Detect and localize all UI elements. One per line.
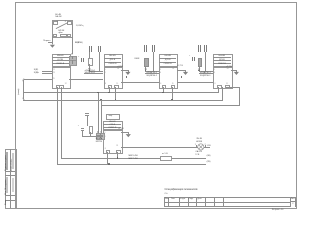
IC DD2 body [104,66,124,89]
wire DD4 pin a to bus B1 [217,87,220,93]
IC DD1 header text 2 [52,59,69,61]
junction bus B2 tap [100,99,102,101]
IC DD1 pin number 21 [53,69,55,71]
wire perekl arrow [48,41,53,44]
diode VD1 arrowhead [198,69,200,71]
label above DD5 text [108,115,112,117]
junction bus B1 tap [97,92,99,94]
lamp pin label 2 [205,144,206,146]
left stamp cell smudge 4 [12,178,14,192]
IC DD5 pin number 13 [116,145,118,147]
label ZhDA [34,72,39,74]
IC DD5 connector labels line1 [96,138,102,140]
label above DD5 box [106,114,120,121]
label ground DD5 [118,128,124,130]
drawing frame border [15,2,297,209]
label 1.8 MHz [76,25,84,27]
wire DD4 pin b right [226,86,240,89]
ground DD3 lead [184,70,187,72]
wire DD1 pin b down [60,87,63,159]
wire lower L1 [61,157,207,160]
junction DD3 b B2 [171,99,173,101]
label 3 25V [76,42,83,44]
wire DD1 pin a down [56,87,59,165]
junction dot group3 [198,70,199,71]
IC DD4 header row line 3 [213,62,231,65]
label lamp top line2 [196,141,202,143]
left stamp strip column divider [9,149,12,208]
IC DD3 pin number 6 [160,72,161,74]
wire DD5 pin a down to L2 [106,152,109,164]
label ZhD1 [34,69,38,71]
label KT315 line2 [85,72,96,74]
lamp pin label 1 [195,144,196,146]
left stamp strip outer [5,149,17,210]
wire into DD5 left [82,135,103,138]
capacitor C5a vertical bar b [154,45,155,51]
bus bottom curl [23,98,25,100]
resistor R3 filled [198,58,203,67]
IC DD1 header text 1 [52,55,69,57]
title block header text data [197,198,201,200]
IC DD5 pin number 8 [105,148,106,150]
switch SA1 second row pin left [53,34,58,38]
capacitor C4 plate bottom [85,114,89,117]
switch SA1 second row label line2 [58,32,62,34]
IC DD1 pin number 23 [53,72,55,74]
resistor R2 filled [144,58,149,67]
wire DD5 to lamp [121,146,197,149]
title block header text podp [189,198,194,200]
IC DD3 body [159,66,179,89]
left stamp strip row line 2 [5,174,15,177]
IC DD1 header row line 3 [52,62,69,65]
title block table top line [164,196,296,199]
IC DD1 connector block upper [69,56,77,61]
capacitor C7 vertical bar a [204,45,205,51]
title block table mid line [164,201,290,204]
title block list label [291,198,295,200]
label perekl [43,40,50,42]
capacitor C5a vertical bar a [152,45,153,51]
wire group2 to DD3 pin 5 [145,70,158,73]
title block list number [292,203,293,205]
diode VD2 arrowhead group2 [145,69,147,71]
junction DD5 b L1 [117,157,119,159]
left stamp rotated text cell 2 [5,179,7,195]
bus wire B2 [23,99,222,102]
IC DD4 header row line 1 [213,56,231,59]
junction dot group1 [89,70,90,71]
left stamp strip row line 3 [5,194,15,197]
title block divider 7 [222,197,225,207]
label KT315 DD4 line2 [200,75,211,77]
ground symbol DD2 [125,72,130,75]
capacitor C3 vertical bar a [98,46,99,52]
capacitor C5 plate bottom [81,129,85,132]
IC DD2 header text 2 [104,59,122,61]
arrowhead into DD5 connector b [100,131,102,133]
junction dot on L2 [108,163,110,165]
capacitor C7 vertical bar b [206,45,207,51]
capacitor C1 plate left [80,58,83,61]
capacitor C2 vertical bar b [91,46,92,52]
IC DD1 connector block lower [69,60,77,65]
IC DD1 pin number 12 [65,83,67,85]
capacitor C3 vertical bar b [100,46,101,52]
IC DD5 header text 3 [103,127,121,129]
IC DD3 header text 1 [159,55,177,57]
wire DD5 to ground [121,131,128,134]
IC DD1 body [52,66,71,89]
IC DD3 pin number 5 [160,69,161,71]
ground symbol DD5 [126,134,131,137]
IC DD2 header row line 2 [104,61,122,64]
capacitor C6 vertical bar b [200,45,201,51]
wire bus B1 to DD5 connector [97,92,100,132]
wire group1 to DD2 pin 6 [84,72,103,75]
wire DD5 pin b down to L1 [116,152,119,158]
label above group 1 [75,42,79,44]
title block divider 6 [213,197,216,207]
switch SA1 second row pin right [67,34,72,38]
left stamp rotated text cell 3 [5,199,7,205]
label KT315 DD3 line2 [146,75,157,77]
IC DD2 header box [104,54,124,67]
IC DD5 header text 2 [103,124,121,126]
resistor R1 lead top [88,52,91,57]
wire DD4 loop down [238,87,241,106]
left stamp rotated text cell 1 [5,155,7,171]
IC DD5 header text 1 [103,121,121,123]
capacitor C5 plus [78,125,79,127]
resistor R2 lead bottom [144,66,147,71]
IC DD4 header row line 2 [213,59,231,62]
resistor R1 lead bottom [88,64,91,71]
title block divider 5 [204,197,207,207]
resistor R1 [88,58,93,67]
bus wire B3 [101,104,240,107]
wire DD4 pin a to bus B2 vertical [221,87,224,100]
resistor R3 lead bottom [198,66,201,71]
title block divider 1 [167,197,170,207]
bus top curl [23,79,24,81]
resistor RL on L1 [160,156,172,161]
label lamp top line1 [196,138,202,140]
wire lower L2 [57,163,206,166]
switch SA1 second row label line1 [58,30,64,32]
label lamp bottom line1 [195,151,201,153]
ground symbol under switch [50,44,55,48]
IC DD1 connector block lower divider [71,60,74,63]
IC DD2 pin number 5 [105,69,106,71]
label MVU line1 [129,155,138,157]
switch unit SA1 outline [52,20,73,37]
title block divider 2 [178,197,181,207]
IC DD5 header row line 1 [103,123,121,126]
IC DD5 bottom pin a [106,150,111,154]
IC DD5 header box [103,121,123,132]
arrowhead into DD5 connector a [97,131,99,133]
wire C5a down to pin wire [152,52,155,71]
IC DD1 header box [52,54,71,68]
resistor RL label [162,153,168,155]
IC DD2 bottom pin a [108,85,113,89]
junction DD2 b B2 [115,99,117,101]
title caption line 2 [165,193,168,195]
wire DD3 pin a to bus B1 [162,87,165,93]
bus vertical line [22,80,25,99]
wire group1 to DD2 pin 5 [89,70,103,73]
ground symbol DD3 [183,72,188,75]
lamp HL1 circle [198,144,204,150]
label lamp right [207,145,211,147]
switch unit SA1 label line2 [55,16,61,18]
switch SA1 pin 4 [67,21,72,25]
ground symbol DD4 [234,72,239,75]
wire group2 to DD3 pin 6 [145,72,158,75]
wire switch left lead down [51,36,54,44]
title block header text izm [165,198,169,200]
label lamp bottom line2 [195,154,199,156]
IC DD4 header text 3 [213,63,231,65]
capacitor C4 vertical bar a [144,45,145,51]
IC DD5 header row line 2 [103,126,121,129]
wire bus B2 to DD5 connector [100,100,103,133]
capacitor C5 lead bottom [81,130,84,136]
IC DD3 pin number 8 [160,83,161,85]
title caption line 1 [165,189,198,191]
lamp wire tick left [195,145,198,147]
IC DD2 pin number 11 [116,83,118,85]
arrowhead into DD1 connector [71,53,73,55]
label ground DD2 [117,66,123,68]
capacitor C1 plus sign [78,56,79,58]
capacitor C4 vertical bar b [146,45,147,51]
lamp wire tick right [204,145,207,147]
IC DD1 pin number 25 [53,78,55,80]
IC DD4 body [213,66,233,89]
IC DD5 bottom pin b [116,150,121,154]
switch unit SA1 label line1 [55,14,61,16]
IC DD2 header text 3 [104,63,122,65]
diode VD3 arrowhead group1 [88,68,90,70]
label ground DD4 [226,66,232,68]
IC DD3 header row line 1 [159,57,177,60]
IC DD4 pin number 5 [214,69,215,71]
IC DD4 bottom pin b [225,85,230,89]
IC DD2 header row line 1 [104,57,122,60]
title block designation cell divider [289,197,292,208]
capacitor C8 plate left [191,57,194,60]
IC DD4 pin number 6 [214,72,215,74]
left stamp cell smudge 2 [12,153,14,169]
IC DD3 header text 2 [159,59,177,61]
IC DD3 header box [159,54,179,67]
capacitor C6 vertical bar a [198,45,199,51]
IC DD5 connector block [96,133,105,139]
label ground DD3 [177,65,183,67]
IC DD1 header row line 2 [52,59,69,62]
IC DD3 bottom pin a [162,85,167,89]
wire DD2 pin a to bus B1 [108,87,111,93]
wire DD4 to ground [231,69,237,72]
title block list cell divider [290,200,296,203]
bus label shina rotated [18,89,20,95]
ground DD4 lead [235,70,238,72]
junction DD3 a B1 [162,92,164,94]
IC DD5 connector labels line2 [96,141,102,143]
ground DD5 lead [127,132,130,134]
IC DD5 body [103,129,123,153]
IC DD4 header box [213,54,233,68]
IC DD2 pin number 6 [105,72,106,74]
capacitor C8 plus sign [189,55,190,57]
IC DD4 pin number 8 [215,83,216,85]
capacitor C4 plate top [85,112,89,115]
switch SA1 pin 1 number [57,21,58,23]
label left of R2 [135,58,140,60]
wire ZhD1 [42,70,52,73]
switch SA1 pin 1 [53,21,58,25]
IC DD3 bottom pin b [171,85,176,89]
IC DD3 header text 3 [159,63,177,65]
left stamp strip row line 1 [5,170,15,173]
format note under frame [272,209,284,211]
IC DD4 bottom pin a [217,85,222,89]
wire DD2 to ground [121,69,128,72]
capacitor C8 plate right [193,57,196,60]
label end L2 [207,161,211,163]
left stamp cell smudge 3 [6,177,8,193]
wire DD1 to DD2 [69,78,104,81]
wire bus to DD1 pin [24,78,52,81]
IC DD2 pin number 14 [117,68,119,70]
IC DD5 connector divider h [96,134,103,137]
bus wire B1 [23,91,218,94]
junction dot group2 [145,70,146,71]
wire group3 to DD4 pin 6 [199,72,213,75]
switch SA1 second row center contact [60,34,66,38]
IC DD4 header text 2 [213,59,231,61]
label MVU line2 [129,158,138,160]
left stamp rotated text cell 1b [11,158,13,171]
switch SA1 lever diagonal [56,23,68,29]
title block right edge [294,197,297,208]
title block left edge [163,197,166,207]
resistor R5 [89,126,94,133]
wire lamp right [204,146,210,149]
title block header text ndoc [180,198,186,200]
IC DD1 header row line 1 [52,56,69,59]
wire DD2 to DD3 [121,81,159,84]
IC DD2 pin number 8 [105,83,106,85]
wire ZhDA [42,72,52,75]
title block divider 4 [195,197,198,207]
IC DD2 bottom pin b [114,85,119,89]
label end L1 [207,155,211,157]
ground DD2 lead [127,70,130,72]
wire switch right lead down [71,23,74,54]
title block header text list [171,198,175,200]
IC DD1 bottom pin b [59,85,64,89]
IC DD4 pin number 14 [227,68,229,70]
IC DD4 header text 1 [213,55,231,57]
label KT315 line1 [85,70,96,72]
IC DD2 header text 1 [104,55,122,57]
title block table bottom line [164,205,290,208]
IC DD3 header row line 2 [159,61,177,64]
capacitor C1 plate right [82,58,85,61]
resistor R5 lead bottom [89,132,92,137]
wire DD2 pin b to bus B2 [114,87,117,100]
IC DD1 header text 3 [52,63,69,65]
wire DD3 to ground [177,69,186,72]
wire C3 down to pin wire [98,52,101,71]
capacitor C4 lead down [86,116,89,127]
capacitor C5 plate top [81,127,85,130]
IC DD3 pin number 11 [172,83,174,85]
title block divider 3 [187,197,190,207]
junction DD2 a B1 [108,92,110,94]
IC DD5 pin number 4 [104,136,105,138]
IC DD3 pin number 14 [172,68,174,70]
wire DD3 pin b to bus B2 [171,87,174,100]
wire group3 to DD4 pin 5 [199,70,213,73]
IC DD5 connector divider v [99,133,102,137]
IC DD1 connector block upper divider [71,56,74,59]
left stamp cell smudge 1 [6,152,8,170]
label KT315 DD4 line1 [200,72,211,74]
wire DD3 to DD4 [177,81,214,84]
label KT315 DD3 line1 [146,72,157,74]
IC DD1 bottom pin a [56,85,61,89]
wire C7 down to pin wire [204,52,207,71]
IC DD5 pin number 3 [104,132,105,134]
switch SA1 pin 4 number [65,21,66,23]
junction dot near DD3 right [181,76,182,77]
capacitor C2 vertical bar a [89,46,90,52]
IC DD4 pin number 11 [226,83,228,85]
left stamp strip row line 4 [5,199,15,202]
junction dot near DD2 right [126,76,127,77]
